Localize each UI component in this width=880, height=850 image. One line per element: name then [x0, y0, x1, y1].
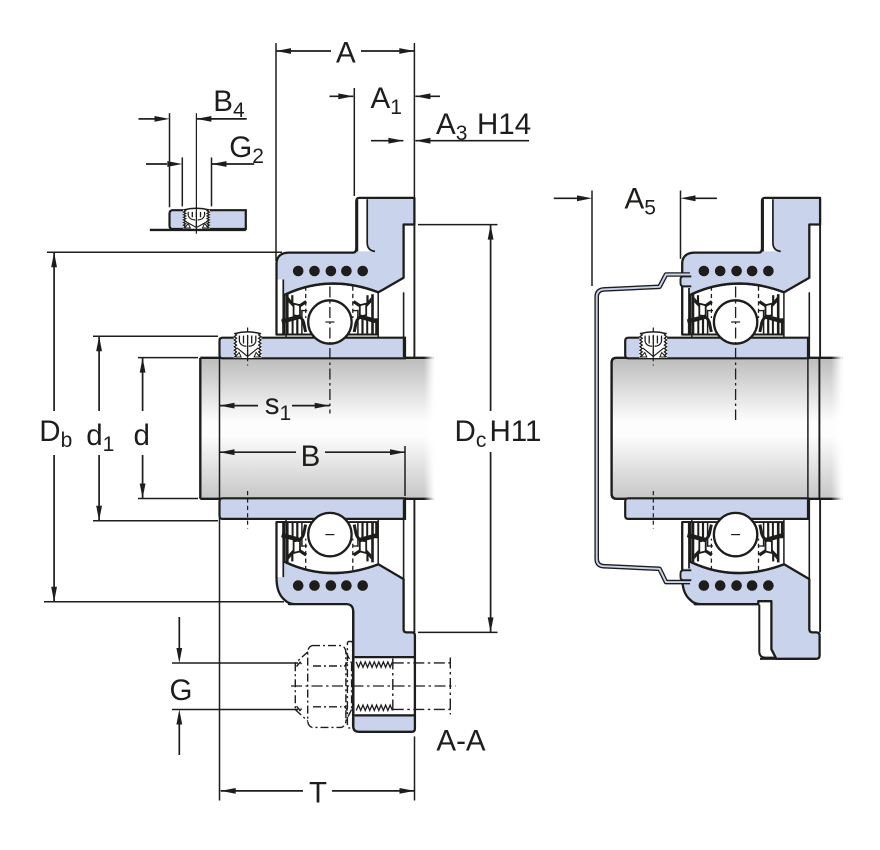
dimension s1 line: [220, 405, 259, 407]
svg-text:T: T: [309, 777, 327, 810]
dimension A1 arrows: [330, 95, 354, 97]
extension line sleeve left face for B4: [169, 113, 171, 207]
flange outer face lower (left view): [413, 500, 415, 633]
extension line flange right for T: [414, 736, 416, 800]
grub screw axis lower (left view): [247, 491, 249, 529]
extension line thread right for G2: [211, 158, 213, 207]
shaft (right view): [612, 358, 843, 499]
bolt hole recess (right view foot): [759, 605, 775, 658]
extension line housing left for A5: [680, 191, 682, 259]
flange bore line lower (right view): [808, 500, 810, 579]
flange bore line upper (left view): [403, 292, 405, 357]
bearing cartridge lower (left view): [277, 513, 378, 591]
extension line cover face for A5: [591, 191, 593, 287]
inner ring sleeve upper (left view): [220, 338, 406, 359]
extension line shaft top for d: [138, 357, 198, 359]
dimension Dc line: [490, 225, 492, 411]
inner ring sleeve lower (right view): [625, 498, 808, 519]
housing + flange upper (left view): [277, 198, 415, 335]
grub screw upper (left view): [234, 332, 262, 358]
svg-text:H11: H11: [490, 415, 542, 448]
cover retaining bump upper (right view): [681, 276, 692, 286]
dimension B4 arrows: [139, 118, 155, 120]
dimension d line: [142, 358, 144, 411]
bearing center line (left view): [329, 287, 331, 414]
flange edge lines over right shaft: [807, 358, 809, 499]
detail shaft surface line: [150, 229, 246, 231]
dimension B line: [220, 451, 297, 453]
grub screw axis upper (left view): [247, 328, 249, 366]
svg-text:d: d: [134, 419, 150, 452]
shaft end fade (right view): [831, 356, 842, 500]
extension line thread left for G2: [181, 158, 183, 207]
dimension Db line: [53, 252, 55, 411]
inner ring sleeve lower (left view): [220, 498, 406, 519]
dimension d1 line: [98, 336, 100, 411]
detail sleeve section (B4/G2): [170, 210, 246, 229]
housing + flange upper (right view): [682, 198, 820, 335]
extension line flange left face for A1: [353, 88, 355, 196]
dimension A line: [276, 50, 331, 52]
pressed steel end cover (right view): [597, 275, 690, 583]
cover retaining bump lower (right view): [681, 570, 692, 580]
svg-text:B: B: [301, 440, 321, 473]
dimension A3 arrows: [371, 140, 403, 142]
housing + flange + foot lower (left view): [277, 522, 415, 732]
washer phantom: [347, 642, 352, 728]
extension line flange bottom for Dc: [418, 631, 498, 633]
flange right face at bolt hole (left view): [414, 657, 416, 715]
dimension G2 arrows: [146, 163, 167, 165]
dimension A5 arrows: [554, 197, 577, 199]
svg-text:G: G: [170, 674, 193, 707]
seal recess strip lower-left (left view): [278, 522, 283, 577]
hex nut phantom: [308, 646, 346, 728]
bearing cartridge lower (right view): [683, 513, 784, 591]
detail grub screw: [183, 208, 210, 229]
extension line flange step for Dc: [418, 224, 498, 226]
seal recess strip upper-left (right view): [684, 288, 689, 335]
seal recess strip lower-left (right view): [684, 522, 689, 568]
extension line sleeve left long (B s1 T): [219, 338, 221, 801]
grub screw axis lower (right view): [652, 491, 654, 529]
dimension T line: [221, 790, 303, 792]
seal recess strip upper-left (left view): [278, 280, 283, 335]
flange neck channel (right view): [763, 199, 781, 251]
bolt center line: [291, 685, 456, 687]
flange foot left face line (left view): [352, 611, 354, 727]
svg-text:A-A: A-A: [436, 725, 486, 758]
svg-text:A: A: [336, 37, 356, 70]
shaft (left view): [200, 358, 433, 499]
flange bore line lower (left view): [403, 500, 405, 579]
dimension G arrows: [178, 617, 180, 648]
flange outer face upper (right view): [819, 225, 821, 358]
flange outer face upper (left view): [413, 225, 415, 358]
grub screw axis upper (right view): [652, 328, 654, 366]
detail screw axis line: [195, 113, 197, 234]
svg-text:H14: H14: [477, 108, 531, 141]
bearing cartridge upper (left view): [277, 266, 378, 344]
flange outer face lower (right view): [819, 500, 821, 633]
extension line nut bottom for G: [172, 709, 298, 711]
threaded bolt hole (left view flange): [355, 658, 414, 714]
extension line flange face for A A1 A3: [413, 43, 415, 197]
flange bore line upper (right view): [808, 292, 810, 357]
extension line shaft bottom for d: [138, 498, 198, 500]
shaft end fade (left view): [424, 356, 434, 500]
grub screw upper (right view): [640, 332, 668, 358]
extension line nut top for G: [172, 662, 298, 664]
extension line housing bottom-left for Db: [44, 601, 284, 603]
bearing center line (right view): [735, 287, 737, 421]
extension line sleeve top for d1: [93, 335, 218, 337]
extension line housing top-left for Db: [47, 251, 282, 253]
bearing cartridge upper (right view): [683, 266, 784, 344]
inner ring sleeve upper (right view): [625, 338, 808, 359]
housing + flange + foot lower (right view): [682, 522, 819, 659]
extension line sleeve bottom for d1: [93, 520, 218, 522]
extension line sleeve right for B: [404, 446, 406, 496]
extension line housing left for A: [275, 43, 277, 261]
bolt phantom outline: [393, 662, 452, 664]
flange neck channel (left view): [358, 199, 376, 251]
